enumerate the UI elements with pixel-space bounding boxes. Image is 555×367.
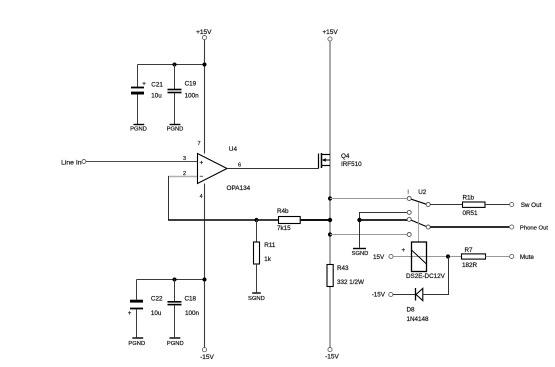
op-amp U1 triangle xyxy=(198,154,228,184)
wire D8 to coil node xyxy=(423,257,449,295)
junction (top bus to +15V rail) xyxy=(203,63,207,67)
svg-text:10u: 10u xyxy=(151,92,162,99)
capacitor C18 xyxy=(168,280,200,338)
svg-text:6: 6 xyxy=(238,162,241,168)
node 15V (relay supply port) xyxy=(373,254,393,261)
wire output to relay contact top xyxy=(330,198,407,200)
junction (output node to relay line D) xyxy=(328,232,332,236)
resistor R43 xyxy=(327,265,364,287)
wire drain rail right (+15V to Q4 drain and down to R43) xyxy=(329,41,331,264)
svg-text:DS2E-DC12V: DS2E-DC12V xyxy=(406,273,446,280)
svg-text:C22: C22 xyxy=(151,295,163,302)
junction (output node to relay line A) xyxy=(328,196,332,200)
relay coil U2 DS2E-DC12V xyxy=(402,242,446,280)
svg-text:3: 3 xyxy=(183,156,186,162)
svg-text:-15V: -15V xyxy=(325,354,339,361)
svg-text:U4: U4 xyxy=(229,146,238,153)
wire 15V to relay coil xyxy=(393,256,461,258)
wire SGND branch lower (to NC contact of pole 2) xyxy=(360,219,408,221)
svg-text:PGND: PGND xyxy=(128,341,145,347)
svg-text:+15V: +15V xyxy=(196,29,212,36)
svg-text:Phone Out: Phone Out xyxy=(520,225,549,231)
wire bottom decoupling bus xyxy=(137,279,205,281)
node +15V (left supply port) xyxy=(196,29,212,40)
wire -15V to D8 xyxy=(393,294,416,296)
node +15V (right supply port) xyxy=(322,29,338,41)
svg-text:+15V: +15V xyxy=(322,29,338,36)
wire pin 2 stub (gray) xyxy=(168,176,197,178)
svg-text:IRF510: IRF510 xyxy=(341,161,362,168)
svg-text:R4b: R4b xyxy=(277,208,289,215)
svg-text:Q4: Q4 xyxy=(341,153,350,160)
wire output to relay contact bottom xyxy=(330,234,407,236)
wire R4b to output rail xyxy=(300,219,330,221)
capacitor C22 xyxy=(128,280,163,338)
svg-text:182R: 182R xyxy=(462,262,478,269)
svg-text:100n: 100n xyxy=(185,310,200,317)
svg-text:C18: C18 xyxy=(185,295,197,302)
ground SGND (relay mute) xyxy=(352,249,369,258)
svg-text:+: + xyxy=(142,81,146,88)
diode D8 xyxy=(407,288,430,323)
svg-text:SGND: SGND xyxy=(248,296,265,302)
wire top decoupling bus xyxy=(138,64,205,66)
ground PGND (under C19) xyxy=(167,125,184,133)
wire rail right lower (R43 to -15V) xyxy=(329,287,331,348)
wire R7 to Mute port xyxy=(486,256,510,258)
svg-text:Mute: Mute xyxy=(520,254,534,261)
wire op-amp output to Q4 gate xyxy=(227,168,319,170)
relay contacts U2 xyxy=(407,189,430,242)
wire feedback down from pin 2 xyxy=(168,176,170,220)
svg-text:PGND: PGND xyxy=(167,127,184,133)
wire R1b to Sw Out port xyxy=(485,204,509,206)
svg-text:D8: D8 xyxy=(407,306,416,313)
capacitor C19 xyxy=(168,65,200,125)
wire SGND branch upper (to NC contact of pole 1) xyxy=(360,213,408,248)
svg-text:+: + xyxy=(128,310,132,317)
node Line In (input port) xyxy=(61,159,86,166)
svg-text:1k: 1k xyxy=(264,256,272,263)
svg-text:OPA134: OPA134 xyxy=(227,185,251,192)
svg-text:332 1/2W: 332 1/2W xyxy=(337,279,364,286)
wire V- rail left (op-amp pin 4 down to -15V) xyxy=(204,184,206,348)
node Mute (control port) xyxy=(510,254,535,261)
wire V+ rail left (from +15V to op-amp pin 7) xyxy=(204,40,206,154)
svg-text:SGND: SGND xyxy=(352,251,369,257)
node Sw Out (output port) xyxy=(510,202,542,209)
ground PGND (under C21) xyxy=(130,125,147,133)
svg-text:7: 7 xyxy=(197,141,200,147)
junction (C18 to bottom bus) xyxy=(173,278,177,282)
resistor R1b xyxy=(463,194,486,217)
node Phone Out (output port) xyxy=(510,225,549,232)
svg-text:15V: 15V xyxy=(373,254,385,261)
transistor Q4 xyxy=(319,153,331,169)
resistor R4b xyxy=(277,208,300,232)
capacitor C21 xyxy=(131,65,163,125)
svg-text:C21: C21 xyxy=(151,82,163,89)
svg-text:4: 4 xyxy=(200,194,203,200)
svg-text:10u: 10u xyxy=(151,310,162,317)
ground PGND (under C18) xyxy=(167,338,184,347)
junction (coil / D8 / R7 node) xyxy=(446,254,450,258)
resistor R11 xyxy=(254,220,276,292)
ground PGND (under C22) xyxy=(128,338,145,347)
svg-text:R1b: R1b xyxy=(463,194,475,201)
node -15V (right bottom port) xyxy=(325,348,339,361)
svg-text:−: − xyxy=(200,174,204,181)
svg-text:PGND: PGND xyxy=(167,341,184,347)
svg-text:R11: R11 xyxy=(264,242,276,249)
svg-text:1N4148: 1N4148 xyxy=(407,316,430,323)
junction (R4b to rail) xyxy=(328,218,332,222)
svg-text:C19: C19 xyxy=(185,81,197,88)
wire pole 1 to R1b xyxy=(430,204,462,206)
svg-text:0R51: 0R51 xyxy=(463,210,479,217)
junction (C19 to top bus) xyxy=(173,63,177,67)
svg-text:-15V: -15V xyxy=(372,292,386,299)
svg-text:100n: 100n xyxy=(185,92,200,99)
wire input to pin 3 xyxy=(86,161,197,163)
node -15V (relay return port) xyxy=(372,292,393,299)
svg-text:U2: U2 xyxy=(418,189,427,196)
wire feedback bottom run xyxy=(168,219,257,221)
svg-text:+: + xyxy=(402,247,406,254)
svg-text:PGND: PGND xyxy=(130,127,147,133)
svg-text:R43: R43 xyxy=(337,265,349,272)
svg-text:R7: R7 xyxy=(465,247,474,254)
ground SGND (under R11) xyxy=(248,293,265,302)
svg-text:-15V: -15V xyxy=(200,354,214,361)
svg-text:Line In: Line In xyxy=(61,159,82,166)
svg-text:Sw Out: Sw Out xyxy=(521,202,542,209)
junction (bottom bus to -15V rail) xyxy=(203,278,207,282)
svg-text:+: + xyxy=(200,159,204,166)
wire pole 2 to Phone Out port xyxy=(430,226,509,228)
node -15V (left bottom port) xyxy=(200,348,214,361)
junction (feedback node R11/R4b) xyxy=(254,218,258,222)
junction (SGND vertical to thick branch) xyxy=(357,218,361,222)
wire feedback node to R4b xyxy=(257,219,279,221)
resistor R7 xyxy=(462,247,486,269)
svg-text:7k15: 7k15 xyxy=(277,225,291,232)
